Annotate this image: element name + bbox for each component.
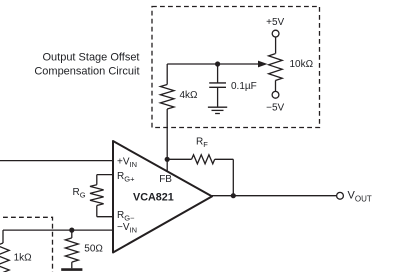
svg-text:−5V: −5V (266, 102, 284, 113)
svg-text:50Ω: 50Ω (84, 244, 103, 255)
svg-text:+5V: +5V (266, 17, 284, 28)
resistor RG (90, 175, 113, 217)
node: FB junction (165, 157, 170, 162)
svg-text:Compensation Circuit: Compensation Circuit (34, 66, 139, 78)
terminal VOUT (337, 189, 372, 203)
svg-text:Output Stage Offset: Output Stage Offset (42, 52, 139, 64)
ground (capacitor) (208, 107, 227, 113)
svg-text:FB: FB (159, 174, 172, 185)
svg-text:10kΩ: 10kΩ (290, 59, 314, 70)
svg-text:1kΩ: 1kΩ (14, 252, 33, 263)
capacitor 0.1uF (209, 64, 226, 107)
wire: 4k top to pot wiper arrow (167, 61, 267, 68)
svg-text:RG−: RG− (117, 210, 135, 223)
svg-text:VCA821: VCA821 (133, 191, 174, 203)
resistor RF (feedback) (167, 155, 233, 164)
label: Output Stage Offset Compensation Circuit (34, 52, 139, 78)
resistor 50Ohm (65, 230, 78, 268)
resistor 4kOhm (160, 64, 174, 172)
compensation circuit dashed box (152, 7, 320, 128)
wire: +VIN input (0, 160, 113, 162)
wire: -VIN net (3, 229, 113, 231)
op-amp U1 VCA821 (113, 141, 212, 253)
svg-text:0.1µF: 0.1µF (231, 81, 257, 92)
terminal +5V (266, 17, 284, 37)
svg-text:−VIN: −VIN (117, 222, 137, 235)
svg-text:4kΩ: 4kΩ (180, 90, 199, 101)
node: 50 ohm junction (69, 228, 74, 233)
ground (50 ohm) (61, 268, 82, 271)
input stage dashed box (partial) (0, 217, 53, 272)
svg-text:RG: RG (73, 187, 86, 200)
svg-text:RF: RF (196, 137, 208, 150)
terminal -5V (266, 91, 284, 113)
svg-text:+VIN: +VIN (117, 156, 137, 169)
potentiometer 10kOhm (269, 37, 283, 91)
svg-text:VOUT: VOUT (348, 189, 372, 203)
node: junction of wiper wire and capacitor (215, 61, 220, 66)
resistor 1kOhm (0, 230, 9, 272)
node: output junction (231, 193, 236, 198)
svg-text:RG+: RG+ (117, 171, 135, 184)
wire: output (212, 195, 337, 197)
wire: RF down to output node (232, 159, 234, 195)
